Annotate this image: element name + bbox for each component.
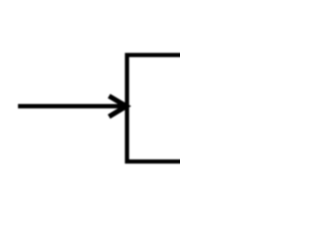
wire (18, 104, 126, 108)
block (127, 55, 189, 162)
arrowhead (109, 96, 126, 117)
